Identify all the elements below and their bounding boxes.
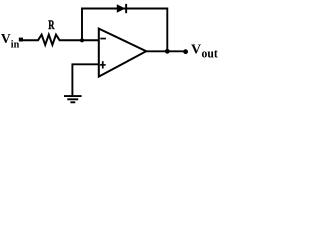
- svg-text:V: V: [1, 31, 11, 46]
- svg-text:in: in: [11, 39, 20, 50]
- svg-text:V: V: [191, 43, 201, 58]
- svg-text:out: out: [202, 46, 219, 61]
- svg-text:R: R: [48, 17, 55, 32]
